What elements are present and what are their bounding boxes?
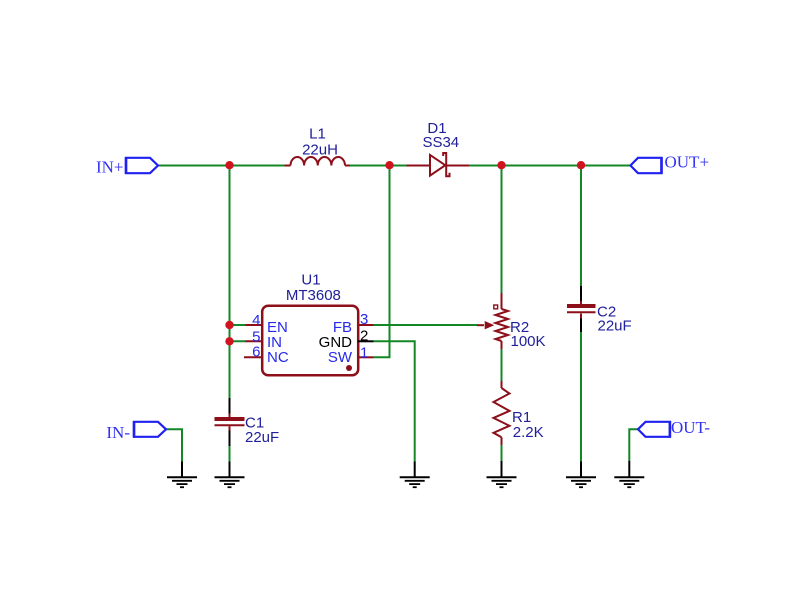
wire IN+ to L1 [158,165,285,167]
svg-text:SS34: SS34 [422,134,459,151]
svg-text:3: 3 [360,311,368,328]
connector IN- [134,422,166,437]
pin 6 lead [244,356,263,358]
svg-text:22uH: 22uH [302,141,338,158]
capacitor C2 stubs [580,301,582,319]
wire C1 bottom [229,446,231,461]
wire IN- to ground [166,429,182,461]
wire D1 to OUT+ [469,165,631,167]
connector OUT- back edge [669,421,672,438]
junction at C2 top [577,161,585,169]
capacitor C1 plates [215,417,245,421]
svg-text:IN+: IN+ [96,158,124,177]
svg-text:OUT-: OUT- [671,418,710,437]
capacitor C1 bottom lead [229,431,231,447]
inductor L1 leads [285,165,351,167]
pin 4 lead [246,324,264,326]
junction at EN pin [225,321,233,329]
junction at SW rail [385,161,393,169]
ground OUT- [614,461,644,488]
svg-text:IN-: IN- [106,423,130,442]
R2 wiper arrow line [477,324,484,326]
ground C2 [566,462,596,488]
svg-text:22uF: 22uF [245,429,279,446]
wire FB horizontal [374,324,478,326]
connector OUT- [638,422,670,437]
potentiometer R2 leads [501,293,503,349]
connector OUT+ back edge [660,157,663,174]
wire R1 bottom [501,445,503,461]
svg-text:22uF: 22uF [598,317,632,334]
capacitor C2 bottom lead [580,319,582,333]
pin 3 lead [358,324,374,326]
inductor L1 [291,157,345,166]
svg-text:MT3608: MT3608 [286,287,341,304]
svg-text:U1: U1 [301,271,320,288]
junction at R2 top [497,161,505,169]
connector OUT+ [631,158,662,173]
potentiometer R2 zigzag [496,309,509,341]
connector IN+ back edge [125,157,128,174]
connector IN+ [126,158,158,173]
wire C2 bottom [580,332,582,462]
diode D1 triangle [430,155,445,176]
op-amp U1 box [262,306,358,376]
connector IN- back edge [133,421,136,438]
capacitor C2 plates [567,304,596,308]
ground C1 [215,462,245,488]
wire OUT- to ground [629,429,638,460]
wire SW vertical [374,166,390,358]
resistor R1 leads [501,381,503,445]
R2 marker square [494,305,498,309]
diode D1 leads [407,165,470,167]
svg-text:4: 4 [252,312,260,329]
wire IN stub [230,340,247,342]
svg-text:6: 6 [252,343,260,360]
capacitor C1 stubs [229,414,231,432]
svg-text:1: 1 [360,344,368,361]
capacitor C2 top lead [580,286,582,302]
resistor R1 zigzag [494,388,510,437]
junction at IN pin [225,337,233,345]
pin 2 lead [358,340,374,342]
ground IN- [167,462,197,488]
U1 pin1 marker dot [346,365,352,371]
svg-text:2.2K: 2.2K [513,424,544,441]
wire vertical input rail [229,166,231,399]
svg-text:2: 2 [360,328,368,345]
wire R2 top [501,166,503,294]
junction at IN rail [225,161,233,169]
capacitor C1 top lead [229,398,231,415]
pin 5 lead [246,340,264,342]
svg-text:NC: NC [267,349,289,366]
svg-text:L1: L1 [309,126,326,143]
ground U1 gnd [400,462,430,488]
wire C2 top [580,166,582,287]
svg-text:SW: SW [328,349,353,366]
diode D1 schottky bar [443,153,449,176]
pin 1 lead [358,356,374,358]
R2 wiper arrowhead [485,322,492,329]
svg-text:100K: 100K [511,333,546,350]
wire R2 to R1 [501,349,503,381]
wire EN stub [230,324,247,326]
svg-text:OUT+: OUT+ [665,153,710,172]
wire GND pin run [374,341,415,461]
ground R1 [487,461,517,487]
wire L1 to D1 [350,165,407,167]
